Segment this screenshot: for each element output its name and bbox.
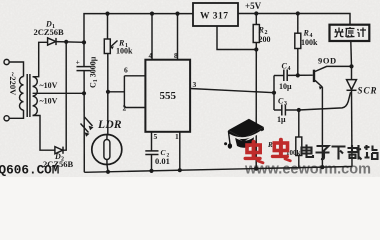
svg-text:LDR: LDR [97,119,122,131]
wire secondary bottom to D2 [33,116,55,151]
transistor collector [315,66,352,71]
wire junction to pins 6/2 [108,91,124,93]
junction pin8 on rail [175,12,179,16]
svg-text:1: 1 [175,132,179,141]
wire to C3 [274,109,282,111]
SCR symbol [351,66,353,79]
wire R2 node to ground (R3) [255,50,257,169]
junction pin1 on ground rail [178,168,182,172]
regulator W317 box [193,3,238,26]
diode D1 [48,38,56,45]
svg-text:R: R [258,26,265,35]
wire R1 to LDR [107,54,109,135]
wire main left vertical upper (+ node) [83,43,85,67]
svg-text:0.01: 0.01 [155,156,170,166]
svg-text:2CZ56B: 2CZ56B [34,27,65,37]
transistor emitter [315,80,322,87]
wire bottom rail [84,167,352,173]
svg-text:10μ: 10μ [279,82,292,91]
resistor R5 [298,110,300,137]
svg-text:200: 200 [259,35,271,44]
junction R2 bottom ADJ node [254,47,258,51]
transformer core [26,74,28,117]
555 pin8 stub [177,14,179,60]
wire center tap [33,92,84,94]
junction R4 bottom on base wire [296,73,300,77]
555 pin4 stub [151,14,153,60]
capacitor C2 [145,150,158,152]
photometer glyphs 光度计 [335,27,367,37]
wire C4 branch down [273,76,275,111]
svg-text:C1 3000μ: C1 3000μ [89,56,100,88]
photometer box [330,25,370,41]
junction emitter on ground rail [320,165,324,169]
svg-text:4: 4 [149,51,153,60]
transformer T1 primary [19,77,23,111]
wire gate [299,92,351,110]
junction pin4 on rail [150,12,154,16]
svg-text:9OD: 9OD [318,56,337,66]
diode D2 [55,147,63,154]
svg-text:8: 8 [174,51,178,60]
wire LDR to rail [107,165,108,172]
wire emitter to rail [321,87,323,167]
wire D1 cathode to node [56,41,84,44]
svg-text:+5V: +5V [245,1,262,11]
junction center tap on ground line [82,91,86,95]
wire top rail [84,14,193,43]
resistor R2 [255,14,257,25]
svg-text:3: 3 [193,80,197,89]
watermark text dianzi xiazaizhan [302,145,378,160]
photometer box wire [350,41,353,66]
resistor R1 (pot) [104,39,110,54]
junction D2 output on D1 wire [64,40,68,44]
svg-text:~220V: ~220V [8,72,18,96]
capacitor C4 [283,70,285,82]
LDR circle [92,135,122,165]
555 pin1 stub to ground [179,132,181,170]
junction R1-LDR to pins 6/2 [106,90,110,94]
junction R2 top on +5V rail [254,11,258,15]
555 pin6 stub [124,75,145,77]
svg-text:~10V: ~10V [40,81,58,90]
LDR light arrows [85,117,93,126]
junction C2 on ground rail [149,169,153,173]
wire main left vertical lower (ground) [83,71,85,173]
junction pin3 wire to C4 branch [272,91,276,95]
resistor R4 [297,14,299,34]
svg-text:SCR: SCR [358,86,378,96]
junction R3 line on ground rail [254,167,258,171]
junction R4 top on +5V rail [296,11,300,15]
terminal upper [4,59,9,64]
svg-text:1μ: 1μ [277,115,286,124]
wire +5V rail [238,14,350,25]
svg-text:555: 555 [160,90,177,102]
555 pin2 stub [124,107,145,109]
svg-text:4: 4 [288,66,291,72]
transformer T1 secondary [33,77,38,116]
svg-text:2: 2 [123,104,127,113]
watermark chong 1 [245,142,263,163]
terminal lower [4,116,9,121]
svg-text:3: 3 [284,101,287,107]
svg-text:~10V: ~10V [40,97,58,106]
wire primary bottom [9,110,23,118]
wire R1 branch [107,14,109,39]
junction C3-R5-gate node [297,108,301,112]
junction LDR on ground rail [106,170,110,174]
svg-text:100k: 100k [116,47,133,56]
svg-text:5: 5 [154,132,158,141]
svg-text:Q606.COM: Q606.COM [0,163,59,178]
svg-text:+: + [76,59,80,67]
555 pin3 wire [190,89,274,93]
wire secondary top to D1 [33,42,48,76]
555 pin5 stub to C2 [151,132,153,151]
svg-text:R: R [303,29,310,38]
wire W317 adj [217,26,256,50]
svg-text:100k: 100k [301,38,318,47]
capacitor C3 [281,105,283,116]
svg-text:W 317: W 317 [200,12,228,22]
wire D2 cathode up to D1 node [63,42,66,150]
capacitor C1 [77,66,91,68]
svg-text:6: 6 [124,66,128,75]
watermark graduation cap [224,119,264,149]
wire primary top [9,62,23,77]
junction collector-SCR anode [349,64,353,68]
watermark chong 2 [273,140,291,161]
wire base line [274,75,284,77]
IC 555 box [145,60,190,132]
junction R1 top on rail [105,12,109,16]
transistor Q1 base bar [313,70,315,82]
junction rectifier output node [82,40,86,44]
